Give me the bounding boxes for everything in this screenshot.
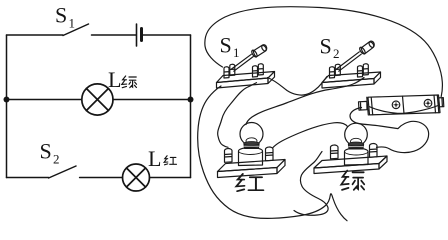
svg-text:S: S (55, 3, 67, 28)
green lamp bulb inner (351, 138, 362, 144)
lamp L-green circle (82, 84, 113, 115)
battery right terminal (439, 98, 444, 107)
wire right rail (190, 35, 192, 178)
S1 base right face (268, 72, 275, 84)
lamp L-green cross (86, 89, 108, 111)
battery box left cap line (367, 97, 373, 115)
red lamp base top face (218, 160, 286, 172)
wire middle right (113, 99, 191, 101)
S1 handle (253, 45, 266, 57)
switch S2 blade (49, 166, 76, 178)
green lamp socket (345, 148, 369, 165)
red lamp collar (244, 143, 259, 148)
S1 handle end cap (261, 45, 267, 52)
svg-text:S: S (40, 139, 52, 164)
S2 base front face (322, 79, 374, 89)
S1 base top face (217, 72, 275, 83)
red lamp bulb inner (246, 138, 257, 144)
wire top mid (92, 34, 137, 36)
label red-char subscript (164, 156, 176, 165)
green lamp right post (369, 144, 377, 158)
S2 base top face (322, 72, 381, 83)
battery box right cap line (434, 95, 439, 113)
wire bottom left (7, 177, 49, 179)
S1 lever blade (232, 54, 254, 71)
node B junction dot (188, 97, 194, 103)
svg-text:S: S (320, 34, 332, 59)
S2 left post cylinders (329, 67, 334, 78)
red lamp left post (224, 149, 232, 163)
S2 lever blade (337, 52, 362, 71)
battery divider (403, 96, 405, 114)
lamp L-red circle (123, 164, 150, 191)
wire top right (142, 34, 191, 36)
wire short link under green lamp (294, 152, 328, 216)
wire big outer arc (S1 left down around bottom to green lamp left) (198, 86, 347, 221)
svg-text:2: 2 (333, 46, 340, 61)
wire link red right post to green bulb (D arc) (273, 123, 348, 148)
S2 handle end cap (368, 41, 375, 48)
battery box outline (368, 95, 440, 115)
green lamp base front face (314, 164, 379, 174)
wire top left (7, 34, 64, 36)
red lamp bulb (240, 123, 263, 146)
S1 right post cylinders (252, 66, 257, 77)
battery long plate (136, 24, 138, 46)
label red-char (pictorial) (236, 174, 263, 191)
S1 base front face (217, 78, 269, 88)
wire long diagonal (S2 right post to red bulb) (246, 78, 364, 125)
battery cell 1 screw (392, 101, 400, 109)
wire bottom right (150, 177, 191, 179)
S2 base right face (374, 72, 381, 84)
wire middle left (7, 99, 82, 101)
svg-text:S: S (220, 33, 232, 58)
red lamp right post (265, 147, 273, 161)
S2 handle (361, 41, 374, 54)
S1 handle ferrule (251, 49, 258, 58)
label green-char subscript (122, 76, 137, 88)
red lamp base right face (277, 160, 285, 174)
S2 right post cylinders (357, 66, 362, 77)
red lamp base front face (218, 168, 278, 178)
wire battery left curl + loop to green right post (350, 108, 429, 153)
green lamp left post (330, 145, 338, 159)
green lamp base top face (314, 156, 387, 168)
switch S1 blade (63, 24, 89, 36)
S1 left post cylinders (224, 67, 229, 78)
svg-text:L: L (108, 67, 121, 92)
battery inner sag line (369, 106, 438, 114)
svg-text:1: 1 (233, 45, 240, 60)
green lamp base right face (379, 156, 387, 169)
battery left terminal (359, 101, 368, 110)
wire top big arc (battery right to S1 left post) (205, 7, 443, 97)
S2 handle ferrule (359, 46, 367, 55)
green lamp bulb (345, 123, 368, 146)
green lamp collar (348, 144, 363, 149)
node A junction dot (4, 97, 10, 103)
wire S1 to red lamp left post (front descend) (218, 83, 257, 148)
battery cell 2 screw (424, 99, 432, 107)
battery short plate (140, 29, 143, 41)
wire bottom mid (80, 177, 123, 179)
svg-text:1: 1 (69, 16, 76, 31)
svg-text:2: 2 (53, 152, 60, 167)
wire U-dip (S1 right post to S2 left post) (268, 77, 328, 96)
wire left rail (6, 35, 8, 178)
red lamp socket (239, 148, 263, 166)
label green-char (pictorial) (341, 171, 364, 190)
svg-text:L: L (148, 146, 161, 171)
lamp L-red cross (127, 168, 146, 187)
